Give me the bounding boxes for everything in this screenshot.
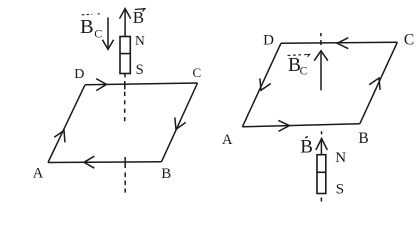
bar magnet below right loop: pole divider — [317, 171, 326, 173]
svg-text:S: S — [336, 182, 344, 198]
svg-text:N: N — [335, 150, 346, 166]
induced-field arrow Bc shaft (downward, left figure) — [107, 17, 109, 47]
wire: left loop top side D-C — [85, 83, 198, 85]
dashed vector bar over Bc label (left figure) — [82, 13, 93, 16]
svg-text:B: B — [80, 16, 94, 38]
current arrow on left loop right side (pointing down-left) — [175, 117, 186, 129]
current arrow on left loop top side (pointing right) — [96, 79, 106, 91]
wire: right loop top side D-C — [281, 41, 397, 44]
field arrow B shaft (above left magnet) — [124, 10, 126, 37]
axis dash below right loop bottom side — [321, 131, 323, 134]
wire: right loop left side D-A — [242, 43, 281, 127]
current arrow on right loop top side (pointing left) — [337, 38, 348, 49]
wire: left loop bottom side B-A — [48, 161, 162, 164]
dashed axis through left loop — [124, 92, 126, 123]
svg-text:B: B — [300, 137, 313, 158]
bar magnet above left loop: pole divider — [120, 53, 130, 55]
svg-text:D: D — [263, 32, 274, 48]
induced-field arrow Bc head (pointing up, right figure) — [314, 51, 328, 61]
wire: right loop right side C-B — [360, 42, 398, 124]
axis tick crossing left loop bottom side — [124, 157, 126, 168]
vector bar over B (left figure top) — [135, 9, 145, 12]
svg-text:A: A — [33, 166, 44, 182]
field arrow B shaft (above right magnet) — [320, 139, 322, 155]
current arrow on right loop left side (pointing down-left) — [260, 78, 271, 90]
induced-field arrow Bc shaft (upward, right figure) — [320, 53, 322, 91]
wire: left loop right side C-B — [162, 83, 198, 162]
field arrow B head (pointing up) — [120, 9, 131, 19]
bar magnet below right loop: outline — [317, 155, 326, 194]
axis dash above right loop — [320, 33, 322, 36]
current arrow on left loop left side (pointing up-right) — [54, 131, 65, 143]
accent dash over B label (right figure) — [305, 136, 308, 138]
dashed vector bar over Bc label (right figure) — [288, 54, 302, 57]
svg-text:N: N — [135, 33, 145, 48]
wire: left loop left side A-D — [48, 85, 85, 163]
axis tick crossing right loop top side — [320, 40, 322, 45]
svg-text:B: B — [358, 130, 368, 147]
axis dash below right magnet — [320, 198, 322, 202]
current arrow on right loop bottom side (pointing right) — [278, 120, 289, 131]
svg-text:C: C — [404, 32, 414, 49]
current arrow on left loop bottom side (pointing left) — [84, 156, 94, 168]
current arrow on right loop right side (pointing up-right) — [369, 78, 380, 90]
axis stub below left magnet — [124, 74, 126, 78]
svg-text:C: C — [94, 26, 102, 40]
axis tick crossing left loop top side — [124, 81, 126, 89]
svg-text:D: D — [74, 67, 84, 82]
svg-text:C: C — [300, 66, 308, 78]
dashed axis below left loop — [124, 173, 126, 193]
field arrow B head below right loop (pointing up) — [316, 139, 327, 151]
induced-field arrow Bc head (pointing down) — [102, 40, 113, 50]
bar magnet above left loop: outline — [120, 37, 130, 74]
svg-text:S: S — [136, 62, 144, 78]
wire: right loop bottom side A-B — [242, 124, 359, 127]
svg-text:B: B — [161, 166, 171, 182]
svg-text:A: A — [222, 132, 233, 148]
svg-text:C: C — [192, 65, 201, 80]
